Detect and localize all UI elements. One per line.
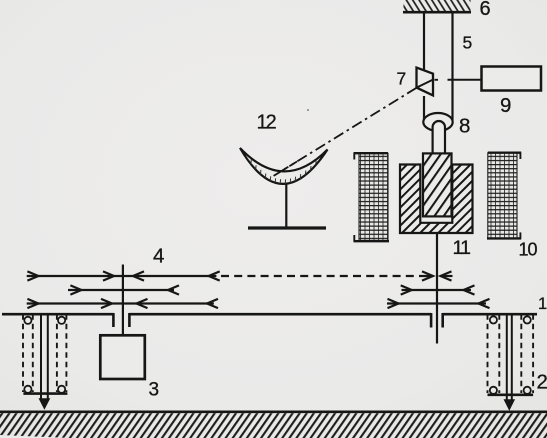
- svg-text:5: 5: [463, 33, 473, 53]
- svg-text:8: 8: [459, 115, 470, 138]
- svg-text:7: 7: [397, 69, 407, 89]
- svg-text:1: 1: [538, 295, 547, 313]
- svg-text:12: 12: [257, 112, 277, 134]
- svg-text:6: 6: [480, 0, 491, 20]
- svg-text:2: 2: [537, 371, 547, 394]
- svg-text:3: 3: [149, 380, 160, 401]
- svg-text:4: 4: [153, 245, 164, 268]
- svg-text:9: 9: [500, 94, 511, 117]
- svg-text:11: 11: [453, 237, 471, 259]
- svg-text:10: 10: [519, 240, 538, 260]
